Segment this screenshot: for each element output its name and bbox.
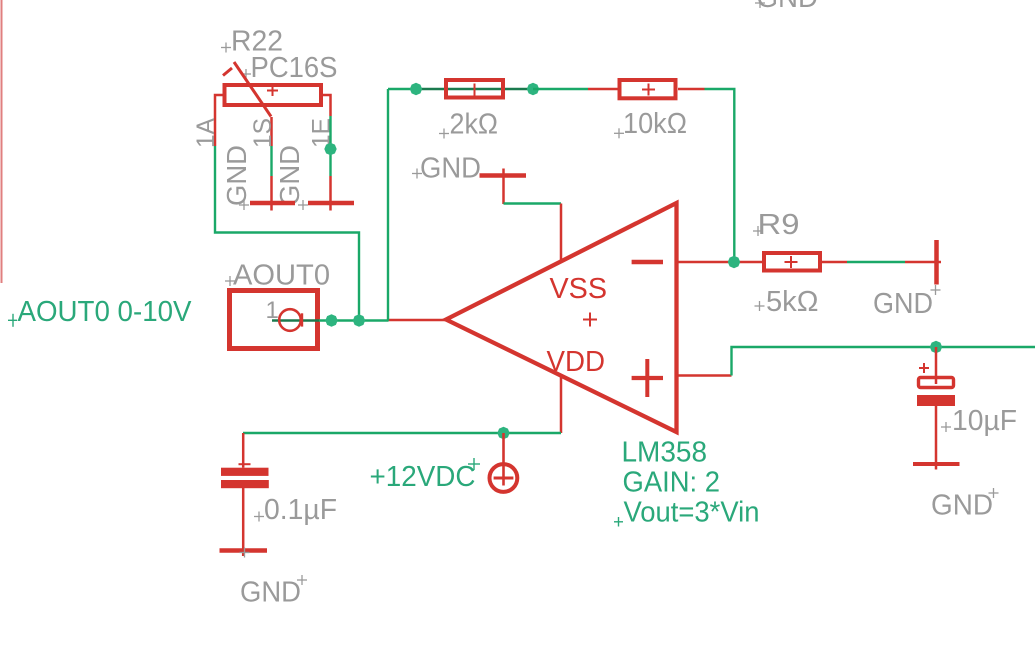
pin number 1 — [266, 297, 279, 324]
junction AOUT0 pin — [325, 314, 337, 326]
svg-text:VDD: VDD — [547, 346, 606, 378]
frame border left edge — [1, 0, 3, 283]
label GND top right partial — [755, 0, 818, 14]
op-amp U1 triangle — [446, 203, 677, 432]
value text LM358 — [622, 437, 708, 469]
svg-text:GND: GND — [420, 153, 481, 185]
ground R9 rotated — [905, 240, 941, 285]
op-amp plus input mark — [632, 359, 663, 397]
ground VSS — [480, 169, 527, 205]
capacitor C 10uF stub top — [935, 347, 938, 384]
net label AOUT0 0-10V — [8, 296, 192, 328]
op-amp input pin at apex — [389, 319, 447, 322]
wire top left segment — [388, 88, 416, 90]
svg-text:GND: GND — [221, 145, 252, 206]
supply +12VDC stub — [502, 433, 505, 486]
capacitor 10uF top plate — [919, 378, 954, 388]
resistor R9 body — [764, 253, 820, 271]
connector AOUT0 box — [230, 291, 318, 349]
junction cap node — [930, 341, 942, 353]
pin 10k left — [588, 88, 619, 91]
svg-text:GND: GND — [757, 0, 819, 14]
svg-text:10µF: 10µF — [952, 405, 1017, 437]
wire through resistor 2k — [416, 88, 533, 90]
label GND 10uF — [931, 488, 999, 522]
pot pin 1S stub — [270, 117, 273, 146]
pot pin 1A stub — [215, 95, 225, 146]
wire 2k to 10k — [533, 88, 588, 90]
label R9 — [753, 209, 800, 241]
pin output — [677, 261, 762, 264]
label R22 — [221, 26, 283, 58]
op-amp text VSS — [550, 273, 608, 305]
capacitor 0.1uF stub top — [242, 433, 245, 468]
wire AOUT0 to branch — [272, 319, 389, 321]
capacitor 0.1uF stub bottom — [242, 488, 245, 556]
svg-text:R9: R9 — [758, 209, 800, 241]
svg-text:2kΩ: 2kΩ — [450, 109, 499, 141]
svg-text:GND: GND — [873, 288, 933, 320]
pin VSS — [560, 204, 563, 262]
op-amp origin cross — [583, 313, 597, 327]
supply +12VDC symbol — [490, 464, 518, 492]
svg-text:AOUT0 0-10V: AOUT0 0-10V — [18, 296, 193, 328]
label 5k — [755, 286, 819, 318]
svg-text:PC16S: PC16S — [251, 52, 338, 84]
pin label 1A — [192, 118, 220, 148]
label AOUT0 — [225, 260, 330, 292]
capacitor 10uF stub bottom — [935, 406, 938, 470]
ground pot 1E — [298, 176, 354, 211]
pin plus input — [677, 374, 732, 377]
op-amp minus input mark — [632, 260, 663, 265]
ground pot 1S — [239, 176, 295, 211]
junction pot 1E — [324, 143, 336, 155]
ground 10uF — [913, 462, 960, 466]
label 10uF — [941, 405, 1017, 437]
junction AOUT0 branch — [353, 314, 365, 326]
svg-text:LM358: LM358 — [622, 437, 708, 469]
pin 10k right — [678, 88, 705, 91]
pin VDD — [560, 376, 563, 434]
junction output node — [728, 256, 740, 268]
wire R9 to gnd — [847, 261, 905, 263]
svg-text:GND: GND — [931, 490, 993, 522]
svg-text:GND: GND — [274, 145, 305, 206]
potentiometer R22 body — [225, 85, 322, 105]
svg-text:1A: 1A — [192, 118, 220, 148]
wire plus input to output rail — [732, 347, 1035, 376]
label PC16S — [241, 52, 338, 84]
label 2k — [439, 109, 498, 141]
wire 10k to output — [705, 89, 735, 262]
pin R9 right — [821, 261, 848, 264]
resistor 10k body — [620, 80, 676, 98]
junction supply — [497, 427, 509, 439]
wire VDD rail — [243, 432, 561, 434]
svg-text:AOUT0: AOUT0 — [233, 260, 330, 292]
net label +12VDC — [370, 458, 481, 493]
op-amp text VDD — [547, 346, 606, 378]
svg-text:VSS: VSS — [550, 273, 608, 305]
wire pot 1S to ground — [270, 146, 272, 176]
wire pot 1A to AOUT0 net — [215, 146, 359, 321]
pin end tick — [301, 313, 303, 326]
pin label 1S — [249, 118, 277, 148]
capacitor 10uF plus mark — [919, 363, 929, 373]
wire pot 1E to ground — [329, 116, 331, 176]
pot pin 1E stub — [321, 95, 331, 116]
resistor 2k body — [446, 80, 503, 98]
pin label 1E — [308, 118, 336, 148]
svg-text:10kΩ: 10kΩ — [623, 108, 687, 140]
label GND 0.1uF — [240, 575, 307, 609]
label 0.1uF — [254, 494, 337, 526]
svg-text:GAIN: 2: GAIN: 2 — [623, 467, 721, 499]
svg-text:1S: 1S — [249, 118, 277, 148]
vertical label GND left — [221, 145, 252, 206]
junction 2k right — [527, 83, 539, 95]
svg-text:5kΩ: 5kΩ — [766, 286, 819, 318]
svg-text:GND: GND — [240, 577, 301, 609]
label 10k — [614, 108, 687, 140]
wire gnd to VSS pin — [504, 202, 562, 204]
capacitor 0.1uF plates — [221, 464, 269, 488]
potentiometer wiper arrow — [223, 62, 271, 117]
vertical label GND right — [274, 145, 305, 206]
wire feedback left vertical — [387, 89, 389, 321]
svg-text:Vout=3*Vin: Vout=3*Vin — [624, 497, 760, 529]
value text Vout=3*Vin — [614, 497, 760, 529]
junction 2k left — [410, 83, 422, 95]
ground 0.1uF — [220, 548, 268, 558]
label GND R9 — [873, 285, 941, 320]
pin circle — [279, 309, 301, 331]
value text GAIN: 2 — [623, 467, 721, 499]
svg-text:0.1µF: 0.1µF — [264, 494, 337, 526]
capacitor 10uF bottom plate — [917, 395, 955, 406]
svg-text:+12VDC: +12VDC — [370, 461, 476, 493]
label GND mid — [412, 153, 481, 185]
